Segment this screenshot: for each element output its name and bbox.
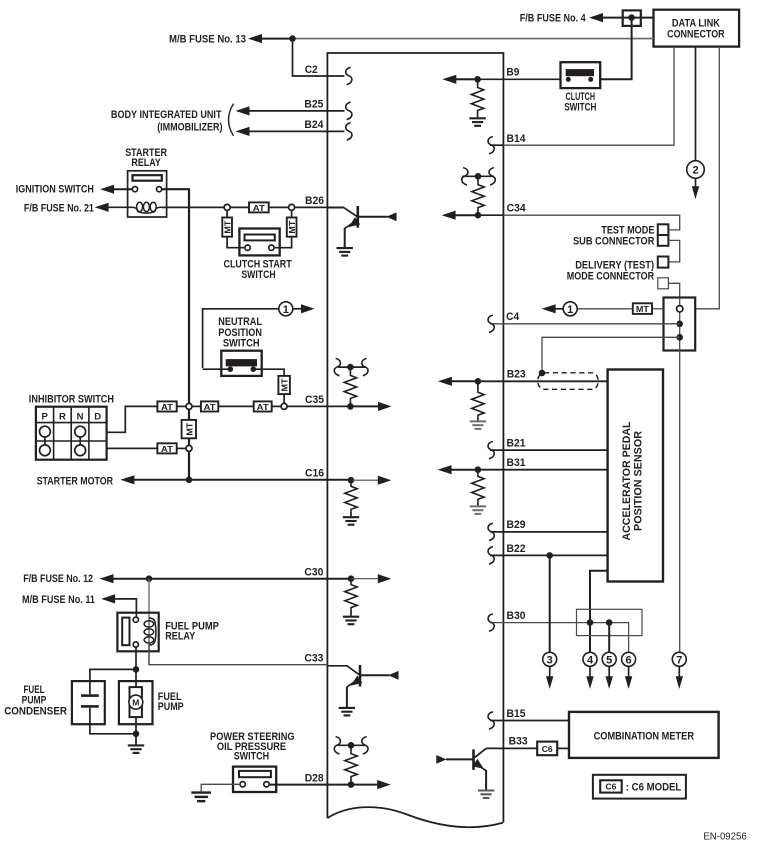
delivery (test) mode connector pin 1: [658, 257, 669, 268]
delivery (test) mode connector pin 2: [658, 278, 669, 289]
ground (gray): [470, 506, 486, 514]
wire D28: [269, 772, 351, 784]
svg-text:C4: C4: [506, 311, 520, 323]
svg-text:P: P: [42, 411, 49, 422]
junction: [628, 14, 635, 21]
svg-text:M: M: [132, 698, 139, 708]
svg-text:: C6 MODEL: : C6 MODEL: [626, 782, 682, 794]
junction: [133, 666, 140, 673]
svg-text:IGNITION SWITCH: IGNITION SWITCH: [16, 184, 94, 196]
svg-text:F/B FUSE No. 4: F/B FUSE No. 4: [520, 13, 587, 25]
wire M/B FUSE No.13: [169, 33, 654, 45]
junction: [133, 731, 140, 738]
svg-text:C35: C35: [305, 394, 324, 406]
break B24: [346, 123, 352, 140]
resistor at C16: [350, 480, 352, 484]
arrow right at C35: [350, 405, 382, 407]
svg-text:5: 5: [606, 655, 612, 667]
svg-text:MT: MT: [222, 220, 232, 234]
wire relay contact to vertical bus: [162, 189, 189, 403]
wire clutch switch to junction box: [600, 18, 631, 80]
wire IGNITION SWITCH: [16, 184, 133, 196]
clutch switch S1: [561, 62, 601, 113]
junction B31: [475, 466, 482, 473]
combination meter U3: [569, 712, 719, 758]
junction: [606, 619, 613, 626]
svg-text:MODE CONNECTOR: MODE CONNECTOR: [567, 270, 654, 282]
fuel pump relay K2: [117, 579, 218, 665]
ECM main box: [327, 53, 505, 827]
transistor Q3 at B33: [436, 748, 494, 798]
wire connector to B23 shield: [542, 337, 680, 371]
resistor at C30: [350, 579, 352, 583]
junction B23: [475, 378, 482, 385]
junction: [587, 619, 594, 626]
break B30: [488, 614, 494, 631]
svg-text:(IMMOBILIZER): (IMMOBILIZER): [157, 122, 223, 134]
svg-text:MT: MT: [279, 378, 289, 392]
wire B29: [490, 519, 608, 532]
AT box 4: [157, 443, 185, 454]
svg-text:SWITCH: SWITCH: [234, 751, 269, 763]
wire B31: [438, 457, 608, 474]
wire C35: [287, 394, 350, 407]
svg-text:7: 7: [676, 655, 682, 667]
break B21: [488, 441, 494, 458]
junction B22: [546, 552, 553, 559]
svg-text:COMBINATION METER: COMBINATION METER: [594, 731, 694, 743]
junction D28: [348, 781, 355, 788]
ground: [343, 517, 359, 525]
svg-text:B31: B31: [507, 457, 526, 469]
AT box 3 on C35: [254, 401, 281, 412]
wire B24: [236, 119, 345, 136]
svg-text:2: 2: [692, 164, 698, 176]
svg-text:R: R: [59, 411, 66, 422]
svg-text:B14: B14: [507, 133, 527, 145]
wire pin to 4p connector: [668, 283, 679, 297]
wire to C2: [293, 39, 345, 76]
junction box on F/B fuse 4 line: [623, 10, 641, 26]
MT box on circled-1 line: [577, 303, 663, 314]
wire C33 from relay: [149, 645, 327, 665]
data link connector U1: [654, 10, 740, 47]
svg-text:RELAY: RELAY: [131, 157, 161, 169]
AT box 1 on C35: [157, 401, 185, 412]
svg-text:AT: AT: [257, 402, 270, 412]
node 6: [622, 652, 636, 689]
MT branch left of clutch start switch: [222, 210, 244, 247]
junction C35: [347, 403, 354, 410]
junction C16: [348, 477, 355, 484]
connector block right: [664, 298, 696, 351]
transistor Q2 at C33: [327, 665, 398, 715]
svg-text:C33: C33: [304, 652, 323, 664]
AT box 2 on C35: [192, 401, 254, 412]
svg-text:EN-09256: EN-09256: [703, 831, 746, 843]
wire APS tap down to node 4: [590, 571, 608, 653]
double break resistor above D28: [334, 737, 368, 785]
break B29: [488, 523, 494, 540]
wire node5 drop: [608, 623, 610, 653]
svg-text:B15: B15: [507, 708, 526, 720]
junction C30: [348, 575, 355, 582]
svg-text:B26: B26: [305, 195, 324, 207]
wire relay coil to B26: [161, 206, 224, 208]
svg-text:B24: B24: [304, 119, 324, 131]
wire B9: [442, 67, 560, 84]
break B22: [488, 547, 494, 564]
arrow left of node 1: [552, 308, 564, 310]
wire inhibitor row3 to bus: [107, 447, 158, 449]
arrow right at C16: [351, 479, 382, 481]
arrow below 2: [695, 178, 697, 189]
ground: [469, 118, 485, 126]
wire B25: [236, 99, 345, 116]
MT box on bus: [182, 409, 196, 445]
svg-text:D28: D28: [305, 772, 324, 784]
ground: [343, 617, 359, 625]
wire B30: [490, 610, 629, 652]
svg-text:SUB CONNECTOR: SUB CONNECTOR: [573, 235, 654, 247]
svg-text:B9: B9: [506, 67, 519, 79]
svg-text:C2: C2: [305, 64, 318, 76]
svg-text:AT: AT: [161, 402, 174, 412]
arrow right at C30: [351, 578, 381, 580]
break B15: [488, 712, 494, 729]
node 7: [672, 652, 686, 689]
svg-text:F/B FUSE No. 21: F/B FUSE No. 21: [24, 202, 94, 214]
svg-text:MT: MT: [184, 422, 194, 436]
wire B22 drop to node 3: [549, 555, 551, 652]
C6 box on B33: [537, 742, 557, 756]
svg-text:B21: B21: [507, 437, 526, 449]
svg-text:MT: MT: [636, 304, 650, 314]
svg-text:ACCELERATOR PEDAL: ACCELERATOR PEDAL: [621, 421, 633, 540]
wire C4: [490, 311, 680, 324]
resistor at B9: [477, 79, 479, 85]
node 2: [687, 161, 705, 179]
break B14: [488, 137, 494, 154]
AT box on B26 wire: [230, 202, 289, 213]
svg-text:B33: B33: [509, 736, 528, 748]
power steering oil pressure switch S5: [210, 731, 295, 792]
svg-text:6: 6: [626, 655, 632, 667]
B30 junction block: [577, 609, 643, 635]
ground below fuel pump: [135, 734, 137, 746]
svg-text:1: 1: [567, 304, 573, 316]
junction (open): [289, 204, 295, 210]
node 1 (left) with neutral position switch: [203, 302, 315, 368]
break C2: [346, 67, 352, 84]
svg-text:B22: B22: [507, 543, 526, 555]
fuel pump condenser C1: [4, 669, 136, 733]
test mode sub connector pins: [658, 224, 669, 246]
svg-text:AT: AT: [204, 402, 217, 412]
wire M/B FUSE No.11: [22, 594, 136, 617]
svg-text:N: N: [77, 411, 84, 422]
svg-text:SWITCH: SWITCH: [223, 337, 260, 349]
svg-text:4: 4: [587, 655, 594, 667]
label body integrated unit: [111, 104, 234, 136]
svg-text:C16: C16: [305, 468, 324, 480]
svg-text:3: 3: [547, 655, 553, 667]
accelerator pedal position sensor U2: [608, 370, 663, 582]
node 4: [583, 652, 597, 689]
svg-text:AT: AT: [253, 203, 266, 213]
node 1 (right): [563, 302, 577, 316]
arrow right at D28: [351, 784, 381, 786]
wire connector drop to node 7: [679, 351, 681, 653]
wire STARTER MOTOR: [37, 468, 351, 488]
junction (open) below MT: [281, 403, 287, 409]
break B25: [346, 102, 352, 119]
ground (gray): [470, 421, 486, 429]
MT box below NPS: [278, 376, 290, 404]
double break resistor above C35: [334, 358, 368, 406]
svg-text:M/B FUSE No. 13: M/B FUSE No. 13: [169, 33, 246, 45]
wire relay to fuel pump: [135, 647, 137, 687]
wire B23: [438, 369, 608, 386]
wire F/B FUSE No.4: [520, 13, 654, 25]
svg-text:C30: C30: [304, 566, 323, 578]
ground: [191, 793, 211, 802]
legend C6 model: [593, 775, 686, 799]
svg-text:C34: C34: [507, 203, 527, 215]
svg-text:BODY INTEGRATED UNIT: BODY INTEGRATED UNIT: [111, 109, 222, 121]
svg-text:PUMP: PUMP: [158, 701, 184, 713]
wire B21: [490, 437, 608, 450]
wire B22: [490, 543, 608, 556]
svg-text:POSITION SENSOR: POSITION SENSOR: [632, 431, 644, 531]
resistor at B23: [477, 381, 479, 390]
wire B15: [490, 708, 569, 721]
resistor at B31: [477, 470, 479, 475]
svg-text:CONDENSER: CONDENSER: [4, 705, 67, 717]
svg-text:SWITCH: SWITCH: [564, 101, 596, 113]
relay coil: [133, 202, 162, 213]
clutch start switch S2: [224, 229, 292, 281]
svg-text:STARTER MOTOR: STARTER MOTOR: [37, 476, 114, 488]
svg-text:INHIBITOR SWITCH: INHIBITOR SWITCH: [29, 393, 114, 405]
junction (open) on bus: [186, 403, 192, 409]
junction (open): [186, 445, 192, 451]
wire DLC to right connector: [695, 47, 719, 309]
starter relay K1: [125, 147, 167, 217]
wire pin2 to delivery pin: [668, 240, 679, 262]
node 5: [602, 652, 616, 689]
wire inhibitor row2 to C35: [107, 406, 158, 432]
svg-text:D: D: [94, 411, 101, 422]
node 3: [543, 652, 557, 689]
svg-text:1: 1: [283, 304, 289, 316]
svg-text:B23: B23: [507, 369, 526, 381]
MT branch right of clutch start switch: [275, 210, 297, 247]
inhibitor switch S4: [29, 393, 114, 459]
double break resistor above C34: [462, 168, 495, 216]
shield around B23: [538, 370, 599, 390]
svg-text:CONNECTOR: CONNECTOR: [667, 29, 725, 41]
svg-text:F/B FUSE No. 12: F/B FUSE No. 12: [23, 573, 93, 585]
svg-text:MT: MT: [287, 220, 297, 234]
svg-text:B30: B30: [507, 610, 526, 622]
wire to ground from switch: [201, 784, 240, 792]
wire DLC to B14: [503, 47, 674, 146]
svg-text:C6: C6: [542, 744, 553, 754]
transistor Q1 at B26: [327, 206, 396, 256]
junction: [289, 35, 296, 42]
wire C34: [442, 203, 680, 230]
svg-text:B25: B25: [304, 99, 323, 111]
junction (open): [224, 204, 230, 210]
wire B33: [486, 736, 569, 749]
wire F/B FUSE No.12 / C30: [23, 566, 351, 585]
svg-text:M/B FUSE No. 11: M/B FUSE No. 11: [22, 594, 95, 606]
junction: [474, 76, 481, 83]
neutral position switch S3: [203, 316, 285, 376]
svg-text:C6: C6: [605, 782, 616, 792]
bus to starter motor wire: [188, 451, 190, 479]
svg-text:RELAY: RELAY: [165, 630, 196, 642]
svg-text:SWITCH: SWITCH: [241, 269, 275, 281]
break C4: [488, 315, 494, 332]
svg-text:B29: B29: [507, 519, 526, 531]
wire F/B FUSE No.21: [24, 202, 133, 214]
wire B14 stub: [490, 144, 503, 146]
svg-text:AT: AT: [161, 444, 174, 454]
fuel pump M1: [119, 681, 184, 734]
wire B26: [295, 195, 344, 207]
wire DLC to circled 2: [695, 47, 697, 161]
